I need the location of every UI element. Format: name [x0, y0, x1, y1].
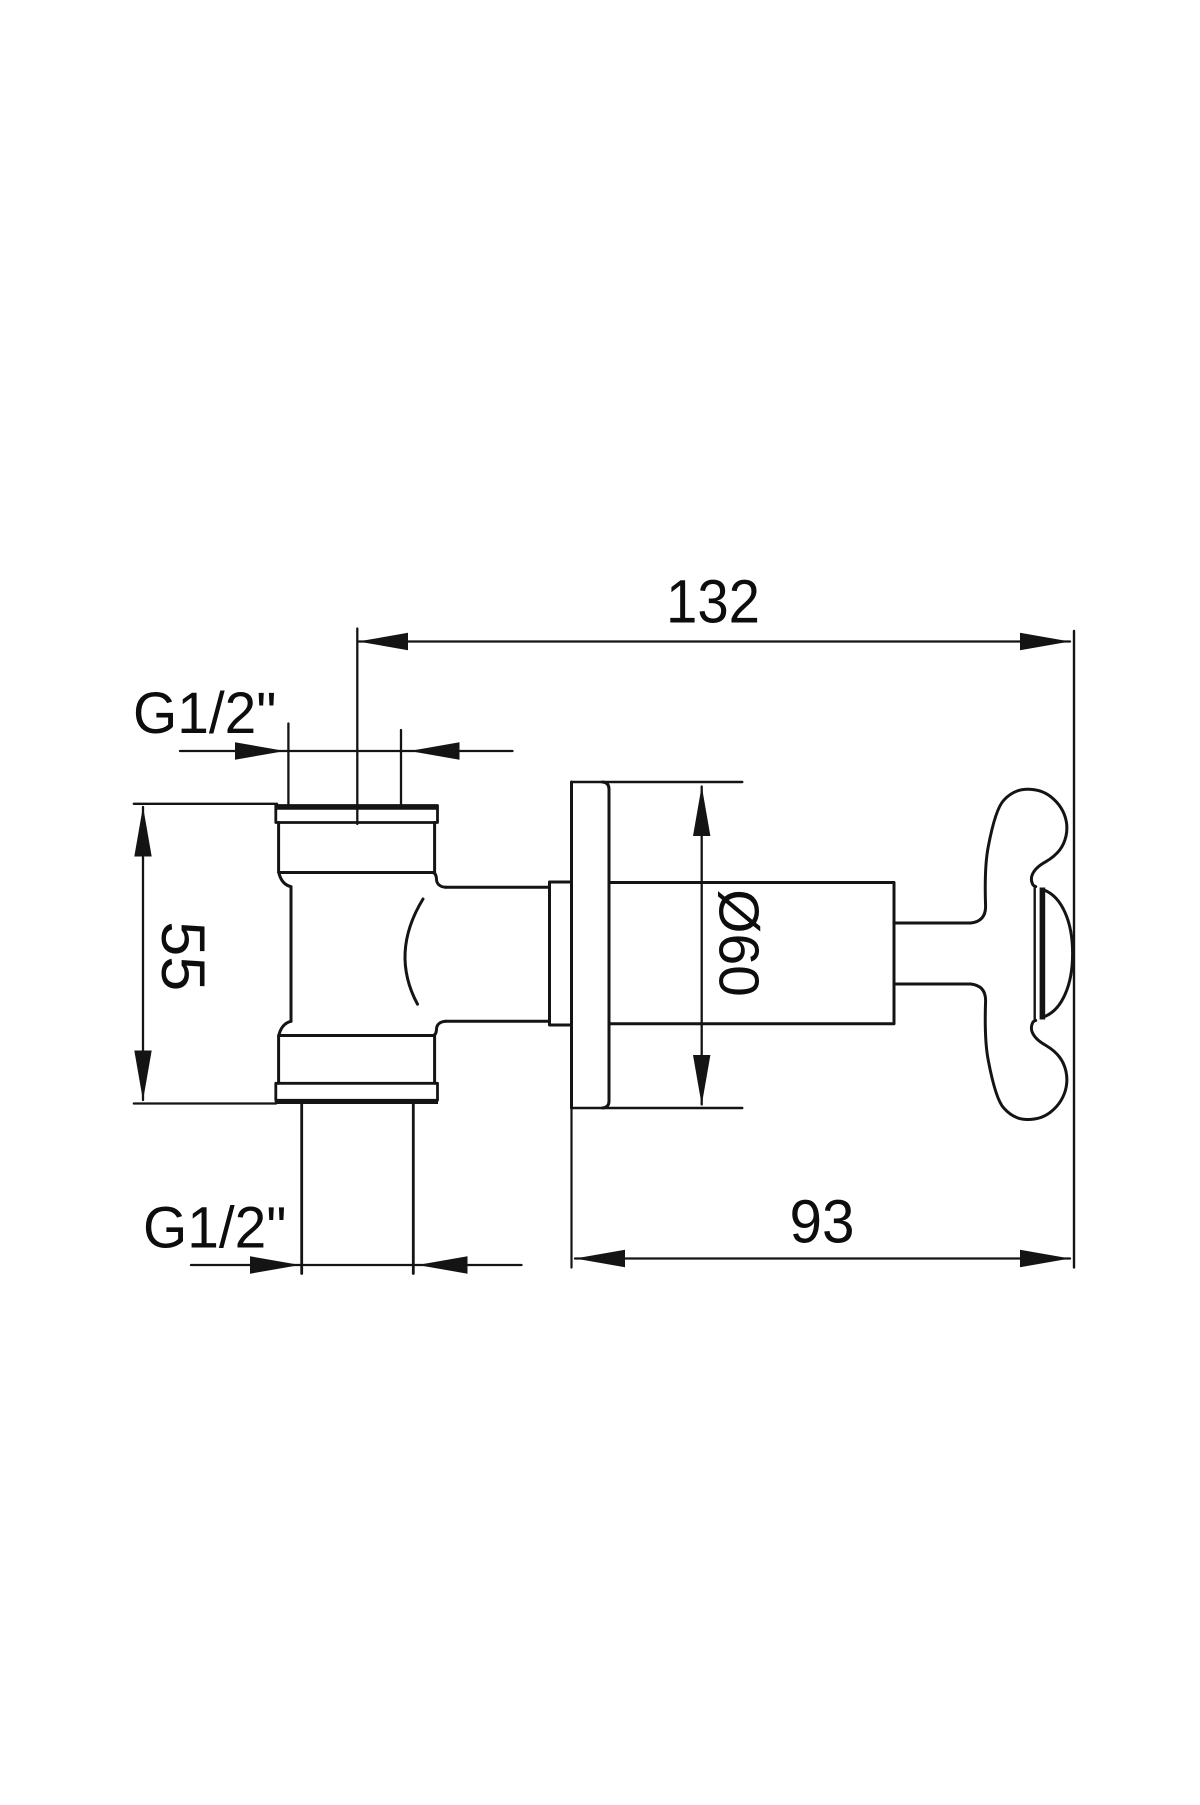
- outlet cylinder bottom edge: [446, 1020, 550, 1023]
- neck fillet upper left: [279, 873, 291, 887]
- hub retaining bar (thick): [1040, 888, 1046, 1020]
- handle neck top edge: [894, 922, 971, 925]
- dim diameter 60 top arrowhead: [693, 786, 710, 836]
- valve top cap band: [276, 806, 438, 823]
- dim 132 line: [358, 640, 1070, 642]
- neck fillet lower left: [279, 1021, 291, 1035]
- svg-text:132: 132: [666, 568, 760, 637]
- dim G1/2 bottom left arrowhead: [250, 1256, 300, 1273]
- valve bottom cap left side: [277, 1036, 280, 1084]
- valve top cap bottom shoulder: [279, 871, 433, 874]
- handle neck bottom edge: [894, 983, 971, 986]
- dim 55 bottom arrowhead: [134, 1051, 151, 1101]
- valve top cap left side: [277, 823, 280, 873]
- valve top cap right side: [433, 823, 436, 873]
- dim 55 line: [142, 807, 144, 1100]
- handle top lobe: [971, 789, 1067, 923]
- flange top edge and diameter top extension: [572, 781, 743, 783]
- flange left edge and 93 extension line: [570, 782, 573, 1108]
- valve top cap band thick top edge: [275, 805, 438, 810]
- stem cylinder: [609, 883, 894, 1024]
- dim 55 bottom extension line: [134, 1102, 276, 1104]
- valve main body left edge: [290, 887, 293, 1022]
- bottom pipe right edge: [412, 1104, 415, 1274]
- dim diameter 60 line: [701, 787, 703, 1105]
- valve bottom cap right side: [433, 1036, 436, 1084]
- dim 132 left extension line: [356, 629, 358, 825]
- dim 93 right arrowhead: [1020, 1250, 1070, 1267]
- handle bottom lobe: [971, 984, 1067, 1120]
- dim 55 top arrowhead: [134, 807, 151, 857]
- valve bottom cap top shoulder: [279, 1034, 433, 1037]
- svg-text:55: 55: [149, 921, 217, 991]
- dim 93 line: [575, 1257, 1070, 1259]
- svg-text:Ø60: Ø60: [707, 889, 771, 997]
- ring collar at wall: [550, 882, 572, 1025]
- hub face line: [1033, 887, 1035, 1021]
- dim G1/2 top left extension line: [287, 724, 289, 808]
- neck fillet lower right from outlet: [433, 1021, 446, 1035]
- dim 55 top extension line: [134, 803, 277, 805]
- dim G1/2 bottom right arrowhead: [418, 1256, 468, 1273]
- dim G1/2 top right arrowhead: [410, 742, 460, 759]
- 93 left extension line: [570, 1108, 572, 1268]
- svg-text:G1/2": G1/2": [133, 681, 277, 746]
- body-outlet intersection arc: [405, 899, 423, 1004]
- flange right edge with rounded corners: [603, 782, 610, 1108]
- dim G1/2 top line: [180, 750, 513, 752]
- shared right extension line for 132 and 93: [1073, 631, 1075, 1268]
- valve bottom cap band: [276, 1083, 438, 1100]
- dim 132 left arrowhead: [358, 633, 408, 650]
- hub dome cap: [1045, 891, 1072, 1017]
- dim diameter 60 bottom arrowhead: [693, 1055, 710, 1105]
- flange bottom edge and diameter bottom extension: [572, 1107, 743, 1109]
- dim G1/2 top right extension line: [400, 730, 402, 808]
- valve bottom band thick bottom edge: [275, 1099, 438, 1104]
- svg-text:93: 93: [790, 1188, 855, 1257]
- svg-text:G1/2": G1/2": [143, 1196, 287, 1261]
- dim 93 left arrowhead: [575, 1250, 625, 1267]
- neck fillet upper right to outlet: [433, 873, 446, 888]
- outlet cylinder top edge: [446, 886, 550, 889]
- dim G1/2 top left arrowhead: [235, 742, 285, 759]
- dim 132 right arrowhead: [1020, 633, 1070, 650]
- dim G1/2 bottom line: [191, 1264, 522, 1266]
- bottom pipe left edge: [300, 1104, 303, 1274]
